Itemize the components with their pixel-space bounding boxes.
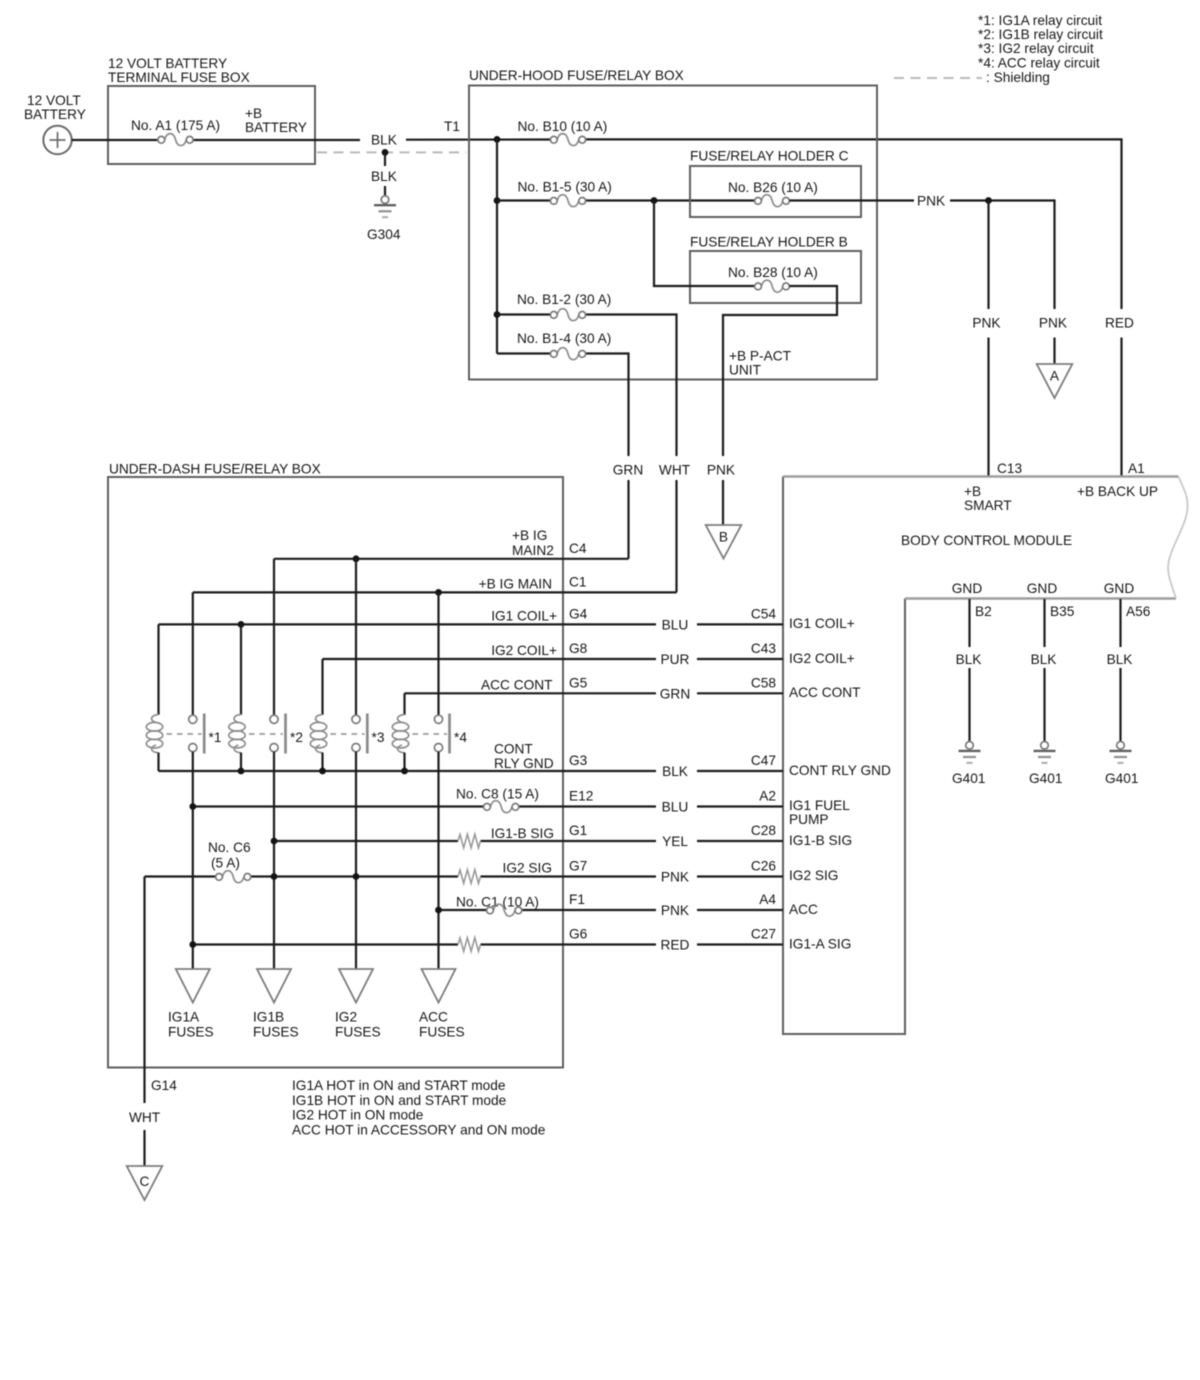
- junction G3 relay3 coil: [319, 768, 326, 775]
- fuse No. C8 (15 A): [456, 787, 539, 813]
- svg-text:(5 A): (5 A): [211, 856, 240, 871]
- svg-text:No. C6: No. C6: [208, 840, 251, 855]
- svg-text:C27: C27: [751, 927, 776, 942]
- svg-text:PNK: PNK: [661, 870, 689, 885]
- svg-text:*2: IG1B relay circuit: *2: IG1B relay circuit: [978, 27, 1103, 42]
- junction B1-5 tap: [494, 197, 501, 204]
- svg-text:ACC HOT in ACCESSORY and ON mo: ACC HOT in ACCESSORY and ON mode: [292, 1123, 545, 1138]
- svg-text:G401: G401: [952, 771, 985, 786]
- svg-text:A: A: [1050, 369, 1060, 384]
- fuse No. C1 (10 A): [456, 895, 539, 917]
- svg-text:A2: A2: [759, 789, 776, 804]
- svg-text:B35: B35: [1050, 604, 1075, 619]
- breaker zigzag G1: [458, 834, 481, 848]
- wire IG2 COIL+ row G8: [323, 658, 784, 660]
- svg-text:*1: *1: [209, 730, 222, 745]
- svg-text:GRN: GRN: [613, 463, 643, 478]
- wire B28 feed: [654, 201, 755, 287]
- svg-text:C: C: [140, 1174, 150, 1189]
- svg-text:IG2 COIL+: IG2 COIL+: [789, 651, 855, 666]
- wire relay1 contact to fuses: [192, 752, 194, 969]
- box BODY CONTROL MODULE outline left: [783, 477, 905, 1035]
- svg-text:IG1 COIL+: IG1 COIL+: [491, 608, 557, 623]
- wire RED to A1: [1120, 338, 1122, 477]
- svg-text:PUMP: PUMP: [789, 812, 829, 827]
- svg-text:A4: A4: [759, 892, 776, 907]
- svg-text:FUSES: FUSES: [168, 1025, 214, 1040]
- wire No. C1 row F1: [439, 909, 784, 911]
- svg-text:C47: C47: [751, 753, 776, 768]
- arrow ACC FUSES: [419, 969, 465, 1040]
- junction B1-2 tap: [494, 311, 501, 318]
- svg-text:IG1-A SIG: IG1-A SIG: [789, 937, 851, 952]
- svg-text:RLY GND: RLY GND: [494, 756, 554, 771]
- svg-text:GND: GND: [952, 581, 983, 596]
- wire GND B2 BLK: [968, 599, 970, 742]
- junction E12 tap: [189, 803, 196, 810]
- svg-text:UNDER-DASH FUSE/RELAY BOX: UNDER-DASH FUSE/RELAY BOX: [109, 462, 321, 477]
- svg-text:PNK: PNK: [707, 463, 735, 478]
- fuse No. A1 (175 A): [131, 118, 220, 146]
- svg-text:CONT RLY GND: CONT RLY GND: [789, 763, 891, 778]
- arrow IG1A FUSES: [168, 969, 214, 1040]
- svg-text:BLK: BLK: [371, 133, 397, 148]
- wire GND B35 BLK: [1043, 599, 1045, 742]
- svg-text:ACC CONT: ACC CONT: [789, 685, 861, 700]
- junction C6 relay2 branch: [271, 873, 278, 880]
- svg-text:*3: *3: [372, 730, 385, 745]
- note fuse modes: [292, 1078, 545, 1138]
- svg-text:G3: G3: [569, 753, 588, 768]
- wire IG2 SIG row G7 with fuse C6: [145, 875, 784, 877]
- svg-text:G8: G8: [569, 641, 588, 656]
- wire relay4 contact to fuses: [437, 752, 439, 969]
- svg-text:ACC: ACC: [419, 1010, 448, 1025]
- svg-text:C4: C4: [569, 541, 587, 556]
- box UNDER-HOOD FUSE/RELAY BOX: [469, 68, 877, 380]
- svg-text:C1: C1: [569, 574, 587, 589]
- legend shielding dashes: [894, 77, 982, 79]
- svg-text:ACC CONT: ACC CONT: [481, 677, 553, 692]
- svg-text:FUSES: FUSES: [335, 1025, 381, 1040]
- svg-text:G401: G401: [1029, 771, 1062, 786]
- wire battery B+ main: [72, 139, 1122, 309]
- wire relay2 contact to fuses: [273, 752, 275, 969]
- svg-text:YEL: YEL: [662, 834, 688, 849]
- svg-text:+B P-ACT: +B P-ACT: [729, 349, 792, 364]
- svg-text:WHT: WHT: [659, 463, 691, 478]
- wire CONT RLY GND row G3: [159, 770, 784, 772]
- svg-text:C43: C43: [751, 641, 776, 656]
- svg-text:BLU: BLU: [662, 617, 689, 632]
- svg-text:12 VOLT BATTERY: 12 VOLT BATTERY: [108, 56, 227, 71]
- junction G3 relay2 coil: [238, 768, 245, 775]
- battery label 12 VOLT BATTERY: [24, 93, 86, 122]
- svg-text:C58: C58: [751, 675, 776, 690]
- junction G6 tap: [189, 941, 196, 948]
- connector arrow C: [127, 1166, 163, 1200]
- box UNDER-DASH FUSE/RELAY BOX: [108, 462, 563, 1068]
- svg-text:GRN: GRN: [660, 686, 690, 701]
- svg-text:FUSE/RELAY HOLDER C: FUSE/RELAY HOLDER C: [690, 149, 849, 164]
- fuse No. B28 (10 A): [728, 265, 818, 292]
- svg-text:No. B1-5 (30 A): No. B1-5 (30 A): [518, 180, 612, 195]
- svg-text:A56: A56: [1126, 604, 1151, 619]
- breaker zigzag G6: [458, 938, 481, 952]
- wire +B IG MAIN2 row C4: [274, 558, 629, 560]
- wire PNK to A arrow: [1053, 338, 1055, 365]
- svg-text:*1: IG1A relay circuit: *1: IG1A relay circuit: [978, 13, 1102, 28]
- connector arrow A: [1037, 364, 1073, 398]
- svg-text:IG1-B SIG: IG1-B SIG: [491, 826, 554, 841]
- svg-text:BLK: BLK: [1031, 652, 1057, 667]
- svg-text:IG1 FUEL: IG1 FUEL: [789, 798, 850, 813]
- svg-text:FUSE/RELAY HOLDER B: FUSE/RELAY HOLDER B: [690, 235, 848, 250]
- junction shield drop: [382, 149, 389, 156]
- svg-text:IG2: IG2: [335, 1010, 357, 1025]
- junction G1 tap: [271, 838, 278, 845]
- ground G401 second: [1029, 742, 1062, 787]
- svg-text:IG1-B SIG: IG1-B SIG: [789, 833, 852, 848]
- label +B SMART: [964, 484, 1012, 513]
- svg-text:BATTERY: BATTERY: [245, 120, 307, 135]
- svg-text:+B: +B: [964, 484, 981, 499]
- ground G401 third: [1105, 742, 1138, 787]
- wire ACC CONT row G5: [405, 692, 784, 694]
- svg-text:IG2 SIG: IG2 SIG: [503, 861, 552, 876]
- wire IG1-A SIG row G6: [193, 943, 783, 945]
- svg-text:PNK: PNK: [972, 316, 1000, 331]
- relay *2 IG1B: [229, 559, 303, 771]
- svg-text:G4: G4: [569, 606, 588, 621]
- wire B28 output to +B P-ACT UNIT: [723, 286, 837, 525]
- svg-text:T1: T1: [444, 119, 460, 134]
- relay *1 IG1A: [146, 592, 221, 771]
- junction PNK to C13: [985, 197, 992, 204]
- wire shield to ground: [384, 154, 386, 196]
- svg-text:G1: G1: [569, 823, 587, 838]
- svg-text:B: B: [719, 530, 728, 545]
- svg-text:No. B10 (10 A): No. B10 (10 A): [518, 119, 608, 134]
- svg-text:No. A1 (175 A): No. A1 (175 A): [131, 118, 220, 133]
- svg-text:IG2 SIG: IG2 SIG: [789, 868, 838, 883]
- label +B IG MAIN2: [512, 528, 554, 558]
- svg-text:GND: GND: [1104, 581, 1135, 596]
- wire relay3 contact to fuses: [355, 752, 357, 969]
- svg-text:GND: GND: [1027, 581, 1058, 596]
- svg-text:G14: G14: [151, 1078, 177, 1093]
- svg-text:BLK: BLK: [1107, 652, 1133, 667]
- svg-text:No. C1 (10 A): No. C1 (10 A): [456, 895, 539, 910]
- junction B26/B28 split: [651, 197, 658, 204]
- svg-text:WHT: WHT: [129, 1110, 161, 1125]
- wire No. B1-2 row: [497, 315, 677, 593]
- relay *3 IG2: [310, 559, 385, 771]
- shielding dashed line: [317, 151, 466, 153]
- svg-text:UNDER-HOOD FUSE/RELAY BOX: UNDER-HOOD FUSE/RELAY BOX: [469, 68, 684, 83]
- label CONT RLY GND: [494, 742, 554, 772]
- svg-text:C13: C13: [997, 461, 1022, 476]
- svg-text:G6: G6: [569, 927, 588, 942]
- svg-text:+B: +B: [245, 106, 262, 121]
- label IG1 FUEL PUMP: [789, 798, 850, 827]
- svg-text:CONT: CONT: [494, 742, 533, 757]
- arrow IG1B FUSES: [253, 969, 299, 1040]
- svg-text:FUSES: FUSES: [253, 1025, 299, 1040]
- svg-text:No. B1-4 (30 A): No. B1-4 (30 A): [517, 331, 611, 346]
- svg-text:*4: ACC relay circuit: *4: ACC relay circuit: [978, 56, 1100, 71]
- box BODY CONTROL MODULE outline top and torn edge: [783, 477, 1188, 599]
- wire No. B1-5 row: [497, 199, 755, 201]
- wire G14 WHT to C: [143, 877, 145, 1167]
- junction C4 to relay3 contact: [353, 555, 360, 562]
- fuse No. B1-2 (30 A): [517, 292, 611, 321]
- svg-text:+B IG: +B IG: [512, 528, 547, 543]
- svg-text:BLU: BLU: [662, 800, 689, 815]
- svg-text:IG2 COIL+: IG2 COIL+: [491, 643, 557, 658]
- wire IG1 COIL+ row G4: [159, 623, 784, 625]
- svg-text:*4: *4: [454, 730, 467, 745]
- junction G3 relay4 coil: [401, 768, 408, 775]
- svg-text:*2: *2: [290, 730, 303, 745]
- svg-text:C26: C26: [751, 859, 776, 874]
- fuse No. B1-4 (30 A): [517, 331, 611, 360]
- svg-text:C54: C54: [751, 606, 776, 621]
- ground G304: [367, 196, 401, 242]
- junction F1 tap: [435, 907, 442, 914]
- svg-text:IG1 COIL+: IG1 COIL+: [789, 616, 855, 631]
- svg-text:No. B26 (10 A): No. B26 (10 A): [728, 180, 818, 195]
- svg-text:*3: IG2 relay circuit: *3: IG2 relay circuit: [978, 41, 1094, 56]
- svg-text:B2: B2: [975, 604, 992, 619]
- box FUSE/RELAY HOLDER C: [690, 149, 861, 218]
- svg-text:BLK: BLK: [956, 652, 982, 667]
- legend relay circuits: [978, 13, 1103, 85]
- svg-text:ACC: ACC: [789, 902, 818, 917]
- wire No. C8 row E12: [193, 805, 783, 807]
- svg-text:SMART: SMART: [964, 498, 1012, 513]
- svg-text:PNK: PNK: [1039, 316, 1067, 331]
- svg-text:IG2 HOT in ON mode: IG2 HOT in ON mode: [292, 1108, 423, 1123]
- svg-text:G5: G5: [569, 675, 588, 690]
- fuse No. B1-5 (30 A): [518, 180, 612, 207]
- svg-text:: Shielding: : Shielding: [986, 70, 1050, 85]
- svg-text:No. B1-2 (30 A): No. B1-2 (30 A): [517, 292, 611, 307]
- svg-text:BATTERY: BATTERY: [24, 107, 86, 122]
- wire IG1-B SIG row G1: [274, 840, 783, 842]
- box FUSE/RELAY HOLDER B: [690, 235, 861, 304]
- svg-text:BLK: BLK: [662, 764, 688, 779]
- battery symbol: [43, 126, 71, 154]
- svg-text:C28: C28: [751, 823, 776, 838]
- junction C6 relay3 branch: [353, 873, 360, 880]
- svg-text:PNK: PNK: [661, 903, 689, 918]
- junction G4 to relay2 coil: [238, 621, 245, 628]
- svg-text:RED: RED: [1105, 316, 1134, 331]
- svg-text:A1: A1: [1128, 461, 1145, 476]
- wire GND A56 BLK: [1119, 599, 1121, 742]
- wire T1 bus vertical: [496, 139, 498, 353]
- svg-text:No. B28 (10 A): No. B28 (10 A): [728, 265, 818, 280]
- relay *4 ACC: [392, 592, 467, 771]
- fuse No. B26 (10 A): [728, 180, 818, 207]
- svg-text:PNK: PNK: [917, 194, 945, 209]
- label +B P-ACT UNIT: [729, 349, 792, 378]
- label +B BATTERY: [245, 106, 307, 135]
- svg-text:RED: RED: [661, 938, 690, 953]
- wire PNK to C13: [987, 201, 989, 477]
- svg-text:BODY CONTROL MODULE: BODY CONTROL MODULE: [901, 533, 1072, 548]
- breaker zigzag G7: [458, 870, 481, 884]
- wire +B IG MAIN row C1: [193, 591, 677, 593]
- svg-text:G304: G304: [367, 227, 401, 242]
- fuse No. C6 (5 A): [208, 840, 251, 883]
- svg-text:F1: F1: [569, 892, 585, 907]
- svg-text:E12: E12: [569, 789, 593, 804]
- junction T1 bus top: [494, 136, 501, 143]
- ground G401 first: [952, 742, 985, 787]
- svg-text:G7: G7: [569, 859, 587, 874]
- svg-text:BLK: BLK: [371, 169, 397, 184]
- svg-text:IG1B HOT in ON and START mode: IG1B HOT in ON and START mode: [292, 1093, 506, 1108]
- box 12 VOLT BATTERY TERMINAL FUSE BOX: [108, 56, 315, 164]
- svg-text:12 VOLT: 12 VOLT: [27, 93, 81, 108]
- svg-text:IG1B: IG1B: [253, 1010, 284, 1025]
- svg-text:IG1A HOT in ON and START mode: IG1A HOT in ON and START mode: [292, 1078, 506, 1093]
- svg-text:G401: G401: [1105, 771, 1138, 786]
- connector arrow B: [706, 525, 742, 559]
- svg-text:PUR: PUR: [661, 652, 690, 667]
- svg-text:No. C8 (15 A): No. C8 (15 A): [456, 787, 539, 802]
- svg-text:UNIT: UNIT: [729, 363, 762, 378]
- svg-text:MAIN2: MAIN2: [512, 543, 554, 558]
- svg-text:FUSES: FUSES: [419, 1025, 465, 1040]
- junction C1 to relay4 contact: [435, 589, 442, 596]
- svg-text:IG1A: IG1A: [168, 1010, 200, 1025]
- svg-text:+B IG MAIN: +B IG MAIN: [479, 576, 552, 591]
- svg-text:TERMINAL FUSE BOX: TERMINAL FUSE BOX: [108, 70, 250, 85]
- wire B26 output PNK: [789, 201, 1054, 310]
- wire No. B1-4 row: [497, 354, 629, 559]
- svg-text:+B BACK UP: +B BACK UP: [1077, 484, 1158, 499]
- fuse No. B10 (10 A): [518, 119, 608, 146]
- arrow IG2 FUSES: [335, 969, 381, 1040]
